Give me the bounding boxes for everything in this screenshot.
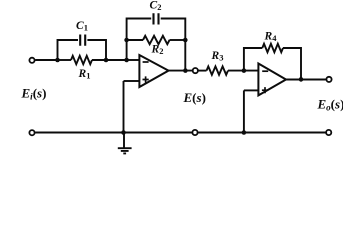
wire C1 branch left riser xyxy=(58,40,79,60)
input terminal bottom xyxy=(29,130,34,135)
resistor R1 xyxy=(71,56,92,64)
node A junction xyxy=(55,58,60,63)
wire U1 plus input down to ground rail xyxy=(123,81,125,133)
wire R4 to right riser down to U2 output xyxy=(283,48,301,79)
wire feedback left riser node B up to C2 xyxy=(127,19,152,61)
node E(s) terminal top xyxy=(193,68,198,73)
wire U2 non-inverting input xyxy=(244,89,258,91)
node B junction xyxy=(124,58,129,63)
junction C1 right leg xyxy=(104,58,109,63)
wire U2 output xyxy=(286,79,326,81)
junction feedback at U1 output xyxy=(183,68,188,73)
svg-text:R1: R1 xyxy=(78,68,91,81)
wire input to node A xyxy=(35,59,57,61)
wire R4 left riser xyxy=(244,48,262,71)
capacitor C1 xyxy=(80,35,85,46)
resistor R2 xyxy=(143,36,170,44)
wire R2 to right riser xyxy=(170,39,186,41)
resistor R4 xyxy=(262,44,283,52)
svg-text:C1: C1 xyxy=(76,20,88,33)
resistor R3 xyxy=(207,66,228,74)
svg-text:C2: C2 xyxy=(150,0,162,12)
wire U1 output xyxy=(169,70,193,72)
input terminal Ei(s) top xyxy=(29,58,34,63)
output terminal Eo(s) top xyxy=(326,77,331,82)
junction R2 left xyxy=(124,38,129,43)
svg-text:Eo(s): Eo(s) xyxy=(317,97,343,113)
wire bottom rail right xyxy=(198,132,326,134)
capacitor C2 xyxy=(154,13,159,24)
wire E(s) to R3 xyxy=(198,70,206,72)
svg-text:R4: R4 xyxy=(264,31,278,44)
junction R2 right xyxy=(183,38,188,43)
output terminal bottom xyxy=(326,130,331,135)
ground xyxy=(118,133,132,154)
wire node B to op-amp U1 inverting input xyxy=(127,59,140,61)
op-amp U2 xyxy=(258,64,286,96)
junction ground rail at U2 plus riser xyxy=(242,130,247,135)
wire C1 to right riser xyxy=(87,40,106,60)
node E(s) terminal bottom xyxy=(192,130,197,135)
U2 plus pin mark xyxy=(262,87,268,93)
U1 minus pin mark xyxy=(143,61,149,63)
junction R4 at U2 output xyxy=(299,77,304,82)
svg-text:R2: R2 xyxy=(151,44,164,57)
wire node A to R1 xyxy=(58,59,72,61)
svg-text:Ei(s): Ei(s) xyxy=(21,86,47,102)
svg-text:R3: R3 xyxy=(211,50,224,63)
wire to R2 xyxy=(127,39,143,41)
U1 plus pin mark xyxy=(143,76,149,82)
wire U1 non-inverting input xyxy=(124,80,140,82)
op-amp U1 xyxy=(139,55,168,87)
wire U2 plus input down to ground rail xyxy=(243,90,245,132)
junction ground rail at U1 plus riser xyxy=(121,130,126,135)
wire R3 to node C xyxy=(228,70,258,72)
wire bottom rail left xyxy=(35,132,192,134)
node C junction xyxy=(242,68,247,73)
svg-text:E(s): E(s) xyxy=(183,90,206,105)
U2 minus pin mark xyxy=(262,70,268,72)
wire C2 to right riser down to output node xyxy=(161,19,186,71)
wire R1 to node B xyxy=(92,59,127,61)
